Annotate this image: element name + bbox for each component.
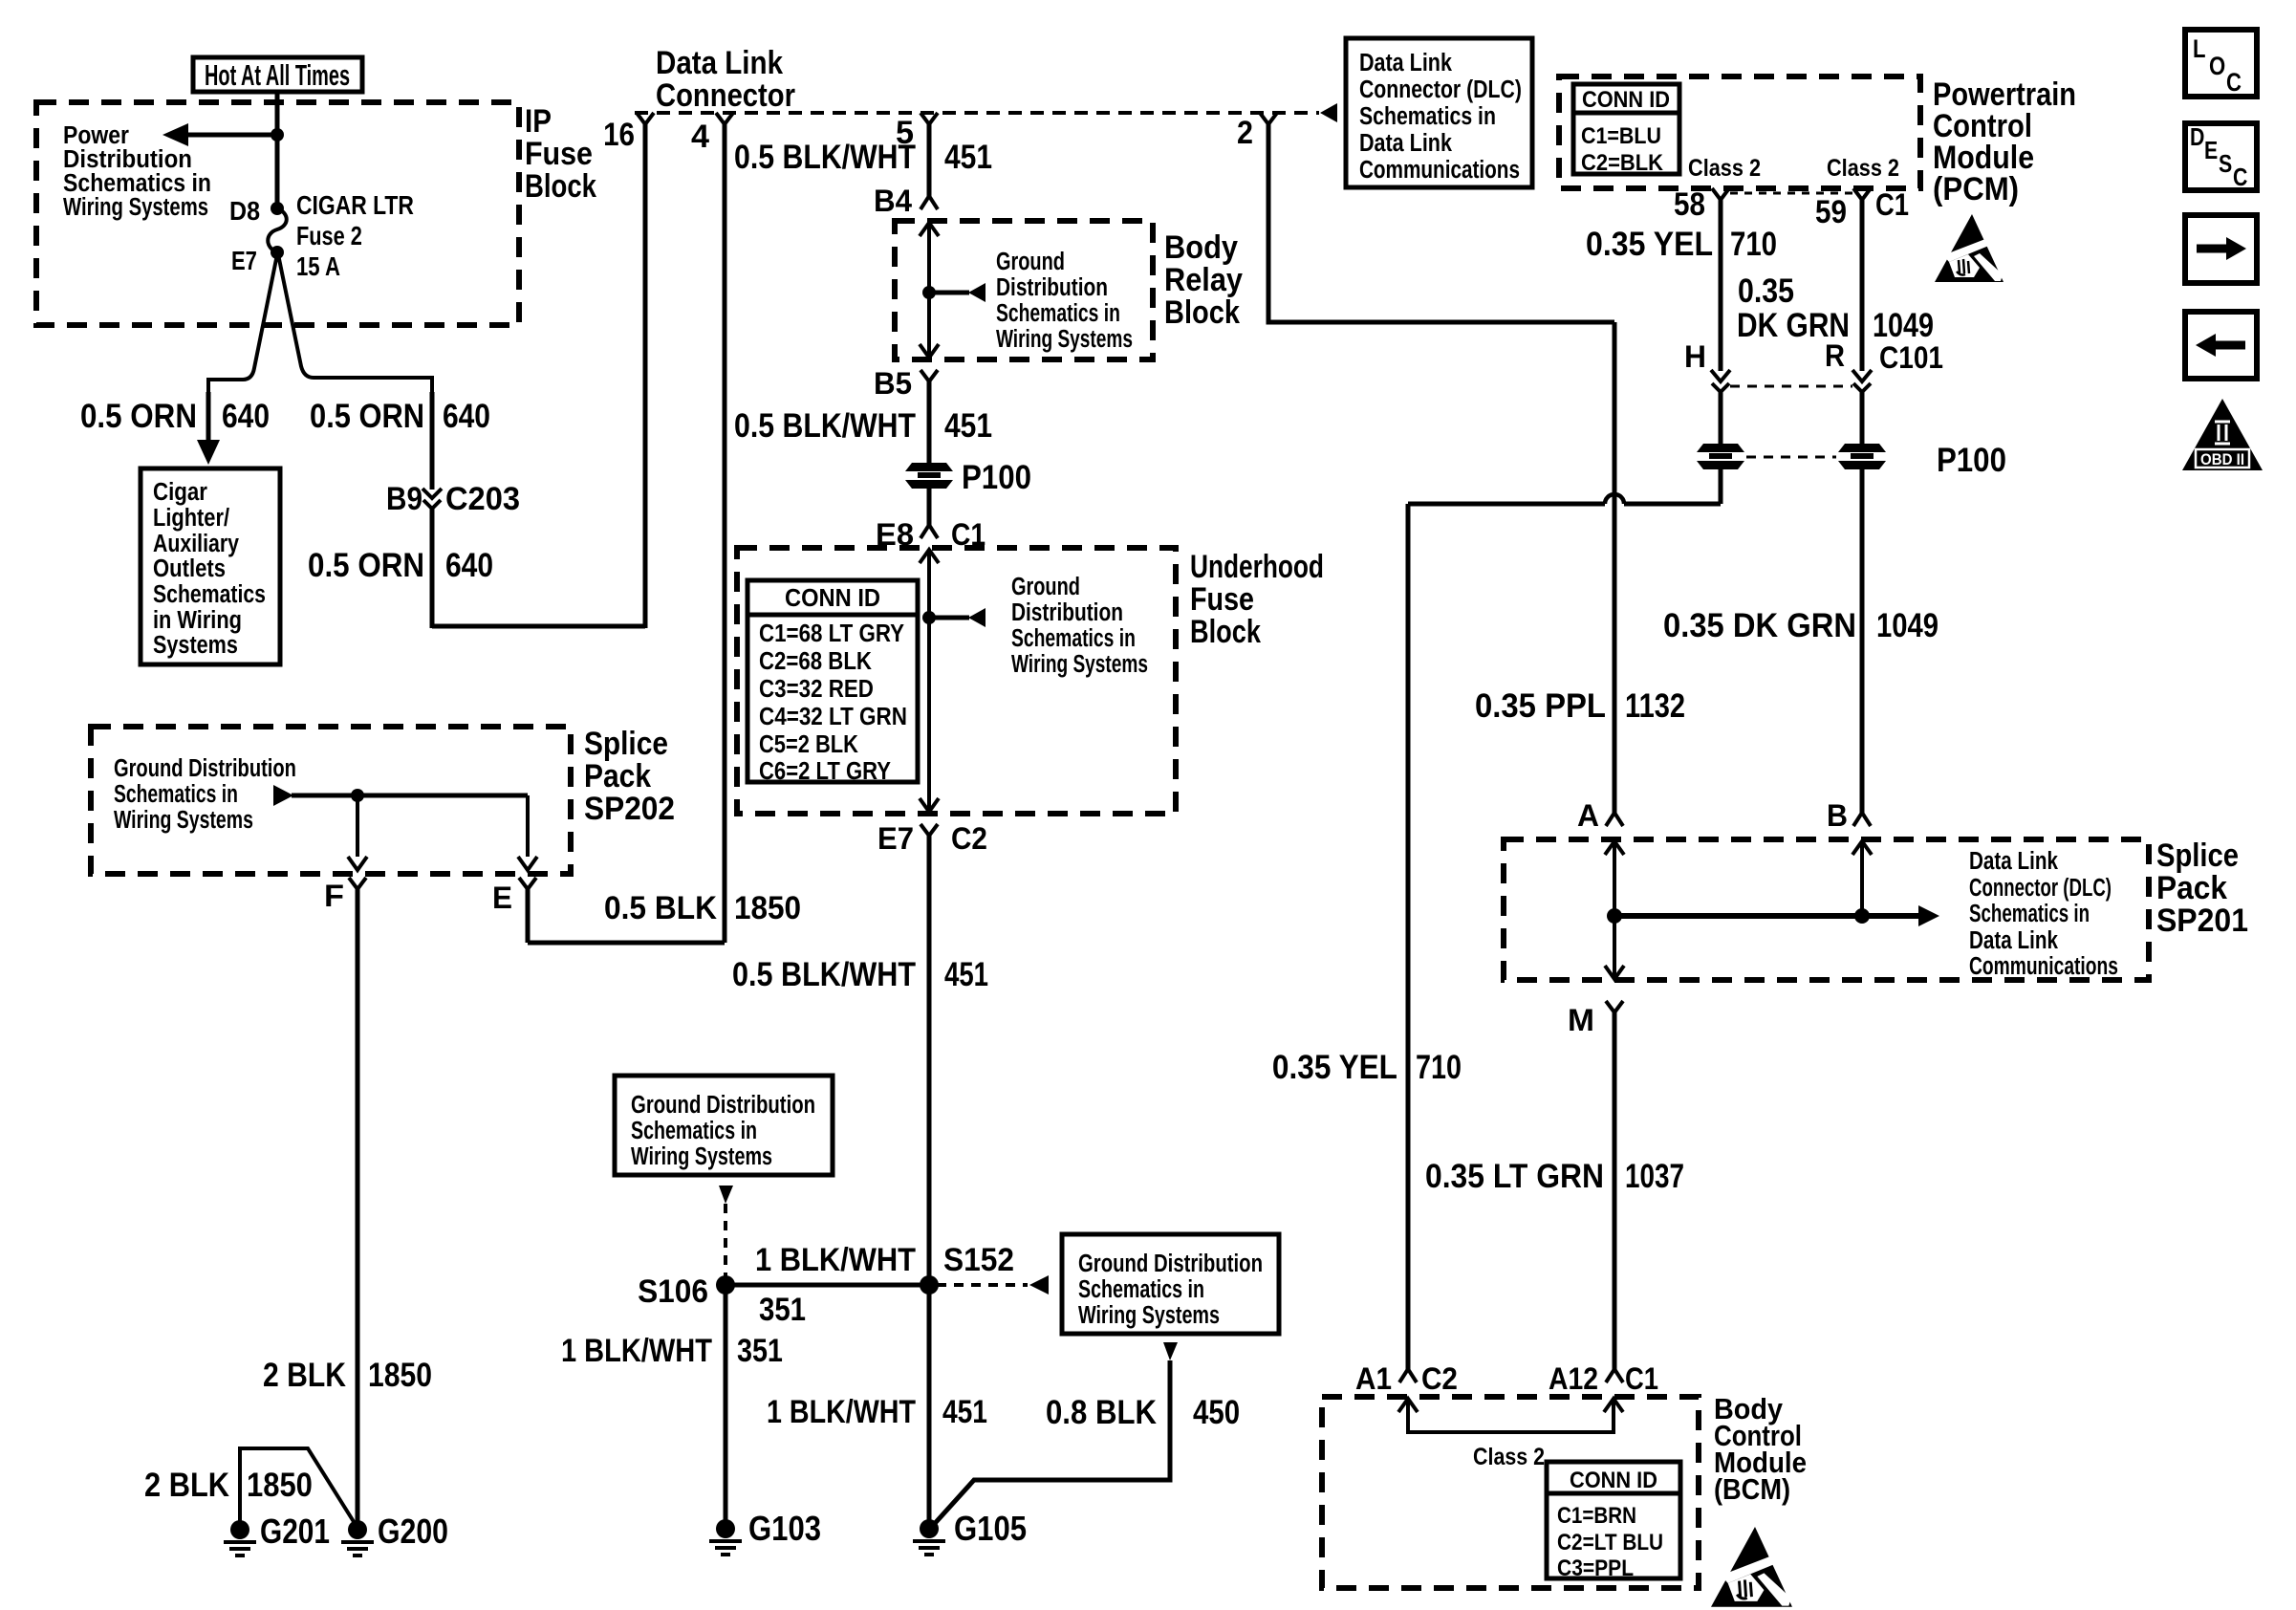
svg-text:P100: P100 (1937, 441, 2006, 478)
svg-text:Communications: Communications (1969, 952, 2118, 981)
connector B5 (921, 370, 938, 381)
svg-text:451: 451 (944, 138, 992, 175)
svg-text:Ground Distribution: Ground Distribution (114, 754, 296, 783)
box Data Link Connector DLC Schematics reference (1346, 38, 1532, 187)
svg-text:16: 16 (603, 116, 635, 152)
svg-text:451: 451 (944, 406, 992, 444)
svg-text:Block: Block (525, 167, 597, 204)
svg-text:2 BLK: 2 BLK (263, 1356, 346, 1393)
wire SP201 A drop (1605, 841, 1624, 855)
ESD symbol PCM (1935, 214, 2004, 282)
svg-text:451: 451 (944, 955, 988, 992)
wire 0.5 ORN 640 right branch (430, 392, 435, 490)
ground G200 (348, 1520, 367, 1539)
svg-text:351: 351 (737, 1332, 783, 1368)
svg-text:640: 640 (443, 397, 490, 434)
net DLC dashed bus line (635, 111, 1319, 115)
table CONN ID PCM (1573, 84, 1679, 174)
svg-text:2: 2 (1237, 114, 1253, 150)
node junction in IP fuse block (271, 128, 284, 141)
svg-text:P100: P100 (962, 458, 1031, 495)
svg-text:Connector (DLC): Connector (DLC) (1969, 874, 2112, 903)
svg-text:Wiring Systems: Wiring Systems (1011, 650, 1148, 679)
svg-text:Fuse 2: Fuse 2 (296, 222, 362, 251)
svg-text:0.35 PPL: 0.35 PPL (1475, 686, 1606, 724)
svg-text:A1: A1 (1355, 1363, 1392, 1397)
svg-text:59: 59 (1815, 193, 1847, 229)
table CONN ID underhood fuse block (747, 580, 918, 782)
svg-text:2 BLK: 2 BLK (144, 1466, 229, 1503)
wire YEL horizontal with hop (1624, 502, 1721, 507)
svg-text:R: R (1825, 340, 1845, 374)
svg-text:C2=68 BLK: C2=68 BLK (759, 647, 872, 676)
wire inside body relay block (920, 223, 939, 236)
svg-text:C: C (2226, 69, 2242, 98)
ESD symbol BCM (1711, 1527, 1792, 1607)
svg-text:C2: C2 (1421, 1363, 1458, 1397)
box Ground Distribution reference (S106) (615, 1076, 833, 1175)
wire SP202 branch E (526, 795, 530, 857)
svg-text:C203: C203 (445, 480, 520, 516)
icon arrow right box (2185, 215, 2257, 283)
svg-text:0.35 LT GRN: 0.35 LT GRN (1425, 1157, 1604, 1194)
svg-text:1037: 1037 (1625, 1157, 1684, 1194)
fuse F2 CIGAR LTR 15A (271, 202, 284, 215)
svg-text:A: A (1577, 800, 1599, 834)
svg-text:A12: A12 (1549, 1363, 1598, 1397)
svg-text:B5: B5 (874, 368, 912, 402)
svg-text:Splice: Splice (584, 725, 668, 761)
svg-text:Splice: Splice (2156, 837, 2239, 873)
arrow into cigar lighter box (197, 440, 220, 465)
wire F down to ground G200 2 BLK 1850 (356, 888, 360, 1527)
svg-text:1049: 1049 (1876, 606, 1939, 643)
svg-text:Outlets: Outlets (153, 555, 226, 583)
wire segment into underhood fuse block (927, 487, 932, 525)
svg-text:E: E (492, 882, 512, 916)
node SP201 junction B (1854, 908, 1870, 924)
svg-text:C1: C1 (1625, 1363, 1658, 1397)
wire DLC pin 5 0.5 BLK/WHT 451 segment 1 (927, 124, 932, 196)
svg-text:Underhood: Underhood (1190, 548, 1324, 584)
svg-text:B4: B4 (874, 185, 913, 219)
wire YEL down to BCM A1 (1406, 504, 1411, 1369)
connector P100 (59 wire) (1838, 444, 1886, 469)
svg-text:E7: E7 (877, 823, 914, 857)
svg-text:Connector: Connector (656, 76, 795, 113)
module box Splice Pack SP202 (dashed) (91, 727, 571, 874)
svg-text:CONN ID: CONN ID (785, 584, 880, 613)
wire pin4 corner to splice pack E (528, 941, 725, 946)
svg-text:(PCM): (PCM) (1933, 170, 2019, 207)
wire fuse output V-split right branch (278, 254, 432, 394)
svg-text:IP: IP (525, 102, 552, 139)
connector P100 pass-through (pin5 wire) (905, 463, 953, 489)
svg-text:Systems: Systems (153, 631, 238, 660)
svg-text:450: 450 (1193, 1393, 1240, 1430)
wire 59 to P100 (1860, 392, 1865, 446)
svg-text:CIGAR LTR: CIGAR LTR (296, 191, 414, 221)
wire E down to corner (526, 888, 531, 943)
node junction underhood fuse block (922, 611, 936, 624)
svg-text:0.35: 0.35 (1738, 272, 1794, 309)
svg-text:D8: D8 (229, 197, 260, 227)
svg-text:Distribution: Distribution (996, 273, 1108, 302)
svg-text:710: 710 (1730, 225, 1777, 262)
connector DLC pin 5 (921, 113, 938, 124)
module box Body Control Module BCM (dashed) (1322, 1397, 1699, 1588)
connector B9 C203 (422, 489, 442, 498)
svg-text:Ground Distribution: Ground Distribution (631, 1091, 815, 1120)
wire 0.5 BLK/WHT 451 segment 3 down to S152 (927, 835, 932, 1285)
arrow down from S152 reference box (1163, 1342, 1178, 1360)
svg-text:0.35 DK GRN: 0.35 DK GRN (1663, 606, 1856, 643)
svg-text:C1: C1 (1875, 189, 1909, 223)
wire 0.35 YEL 710 from PCM 58 (1719, 200, 1723, 371)
svg-text:Hot At All Times: Hot At All Times (205, 59, 350, 93)
connector A (SP201) (1606, 813, 1623, 826)
svg-text:Schematics: Schematics (153, 580, 266, 609)
svg-text:0.35 YEL: 0.35 YEL (1586, 225, 1713, 262)
connector M (1606, 1001, 1623, 1012)
wire arrow to ground distribution ref (underhood) (929, 616, 969, 620)
connector C101 R (1852, 370, 1872, 381)
svg-text:G200: G200 (378, 1512, 448, 1550)
node S106 (716, 1275, 735, 1295)
svg-text:Connector (DLC): Connector (DLC) (1359, 76, 1522, 104)
wire SP202 branch F (356, 795, 359, 857)
module box Body Relay Block (dashed) (895, 221, 1153, 359)
svg-text:C1=BRN: C1=BRN (1557, 1502, 1636, 1528)
wire arrow to Power Distribution reference (187, 133, 277, 138)
svg-text:CONN ID: CONN ID (1570, 1467, 1657, 1492)
connector P100 (58 wire) (1697, 444, 1744, 469)
svg-text:G103: G103 (748, 1509, 821, 1547)
connector PCM pin 58 (1712, 188, 1729, 200)
svg-text:S106: S106 (638, 1273, 708, 1309)
icon DESC box (2185, 123, 2257, 190)
module box Underhood Fuse Block (dashed) (737, 548, 1176, 814)
node S152 (920, 1275, 939, 1295)
svg-text:C2=BLK: C2=BLK (1581, 149, 1663, 175)
wire 0.5 ORN 640 to cigar lighter (206, 392, 211, 441)
ground G105 (920, 1519, 939, 1538)
svg-text:D: D (2190, 123, 2204, 152)
net dashed link between PCM pins (1730, 192, 1852, 195)
net dashed link C101 (1730, 385, 1852, 388)
node SP202 junction (351, 789, 364, 802)
wire dashed S152 to reference (937, 1283, 1028, 1287)
wire 0.8 BLK 450 to G105 (929, 1360, 1170, 1530)
svg-text:Data Link: Data Link (656, 44, 784, 80)
svg-text:451: 451 (942, 1393, 987, 1429)
svg-text:Wiring Systems: Wiring Systems (114, 806, 253, 835)
svg-text:0.5 BLK/WHT: 0.5 BLK/WHT (732, 955, 916, 992)
svg-text:C2=LT BLU: C2=LT BLU (1557, 1529, 1663, 1555)
wire SP202 internal bus with arrow (273, 785, 293, 806)
svg-text:1 BLK/WHT: 1 BLK/WHT (561, 1332, 712, 1368)
svg-text:O: O (2209, 53, 2225, 81)
svg-text:S: S (2219, 150, 2232, 179)
svg-text:Block: Block (1164, 294, 1241, 330)
svg-text:B9: B9 (386, 480, 422, 516)
ground G103 (716, 1519, 735, 1538)
module box Splice Pack SP201 (dashed) (1504, 839, 2149, 980)
svg-text:C1=68 LT GRY: C1=68 LT GRY (759, 620, 904, 648)
svg-text:F: F (324, 881, 344, 914)
connector F (349, 878, 366, 889)
wire 0.5 BLK/WHT 451 segment 2 (927, 381, 932, 465)
label Hot At All Times (193, 57, 362, 92)
wire BCM internal U link (1398, 1399, 1418, 1412)
svg-text:C4=32 LT GRN: C4=32 LT GRN (759, 703, 907, 731)
svg-text:Fuse: Fuse (525, 135, 593, 171)
connector B (SP201) (1853, 813, 1871, 826)
box Ground Distribution reference (S152) (1062, 1234, 1279, 1334)
svg-text:1132: 1132 (1625, 686, 1685, 724)
svg-text:1 BLK/WHT: 1 BLK/WHT (767, 1393, 916, 1429)
svg-text:Pack: Pack (2156, 869, 2228, 905)
svg-text:Class 2: Class 2 (1827, 154, 1899, 181)
svg-text:L: L (2193, 35, 2206, 64)
svg-text:C2: C2 (951, 823, 987, 857)
svg-text:Ground Distribution: Ground Distribution (1078, 1250, 1263, 1278)
svg-text:Schematics in: Schematics in (1359, 102, 1496, 131)
svg-text:Data Link: Data Link (1969, 847, 2059, 876)
connector C101 H (1711, 370, 1730, 381)
svg-text:C5=2 BLK: C5=2 BLK (759, 730, 858, 759)
svg-text:Data Link: Data Link (1969, 926, 2059, 955)
svg-text:Wiring Systems: Wiring Systems (996, 325, 1133, 354)
ground G201 (230, 1520, 249, 1539)
svg-text:DK GRN: DK GRN (1737, 306, 1850, 343)
wire from Hot At All Times into fuse block (275, 92, 280, 208)
svg-text:Fuse: Fuse (1190, 580, 1254, 617)
svg-text:640: 640 (222, 397, 270, 434)
wire 0.35 LT GRN 1037 to BCM A12 (1613, 1012, 1617, 1369)
svg-text:SP202: SP202 (584, 790, 675, 826)
icon LOC box (2185, 30, 2257, 97)
svg-text:0.5 ORN: 0.5 ORN (310, 397, 424, 434)
wire branch to G201 (240, 1448, 357, 1528)
svg-text:E: E (2204, 137, 2218, 165)
wire dashed drop to S106 (724, 1204, 727, 1279)
icon arrow left box (2185, 312, 2257, 379)
node SP201 junction A (1607, 908, 1622, 924)
svg-text:Class 2: Class 2 (1473, 1443, 1545, 1469)
connector E8 C1 (921, 525, 938, 538)
connector PCM pin 59 (1853, 188, 1871, 200)
svg-text:M: M (1568, 1005, 1594, 1038)
svg-text:Pack: Pack (584, 757, 652, 794)
net dashed link P100 pair (1746, 456, 1836, 459)
node junction body relay block (922, 286, 936, 299)
wire 0.35 DK GRN 1049 from PCM 59 (1860, 200, 1865, 371)
svg-text:Ground: Ground (996, 248, 1065, 276)
module box IP Fuse Block (dashed) (36, 102, 519, 325)
wire 58 P100 to corner (1719, 468, 1723, 504)
svg-text:B: B (1827, 800, 1848, 834)
connector DLC pin 2 (1260, 113, 1277, 124)
svg-text:S152: S152 (943, 1241, 1014, 1277)
svg-text:Lighter/: Lighter/ (153, 504, 229, 533)
svg-text:Body: Body (1164, 228, 1239, 265)
table CONN ID BCM (1547, 1462, 1680, 1578)
svg-text:1850: 1850 (247, 1466, 313, 1503)
connector E (519, 878, 536, 889)
svg-text:Wiring Systems: Wiring Systems (63, 193, 208, 222)
svg-text:15 A: 15 A (296, 252, 340, 282)
svg-text:Wiring Systems: Wiring Systems (631, 1142, 772, 1171)
arrow to DLC reference (pin2 side) (1320, 103, 1337, 122)
connector A12 C1 (BCM) (1606, 1369, 1623, 1382)
wire DLC pin 4 0.5 BLK 1850 (723, 124, 727, 943)
svg-text:0.5 ORN: 0.5 ORN (308, 546, 424, 583)
wire arrow to ground distribution ref (body relay block) (929, 291, 969, 295)
svg-text:C101: C101 (1879, 342, 1943, 376)
connector E7 C2 (921, 824, 938, 836)
svg-text:Ground: Ground (1011, 573, 1080, 601)
svg-text:Distribution: Distribution (1011, 598, 1123, 627)
svg-text:C6=2 LT GRY: C6=2 LT GRY (759, 757, 891, 786)
wire DLC pin 2 0.35 PPL 1132 (1268, 124, 1614, 322)
svg-text:Wiring Systems: Wiring Systems (1078, 1301, 1220, 1330)
wire 58 to P100 (1719, 392, 1723, 446)
wire SP201 internal bus (1614, 913, 1918, 919)
connector A1 C2 (BCM) (1399, 1369, 1417, 1382)
svg-text:Class 2: Class 2 (1688, 154, 1761, 181)
svg-text:C: C (2233, 163, 2247, 192)
svg-text:Schematics in: Schematics in (1078, 1275, 1204, 1304)
svg-text:0.35 YEL: 0.35 YEL (1272, 1048, 1397, 1085)
wire 0.5 ORN 640 below C203 (430, 509, 435, 628)
svg-text:0.5 BLK/WHT: 0.5 BLK/WHT (734, 138, 916, 175)
svg-text:Schematics in: Schematics in (996, 299, 1120, 328)
svg-text:Data Link: Data Link (1359, 49, 1453, 77)
svg-text:C3=PPL: C3=PPL (1557, 1555, 1634, 1580)
connector DLC pin 4 (716, 113, 733, 124)
svg-text:(BCM): (BCM) (1714, 1473, 1790, 1507)
wire S106 down to G103 1 BLK/WHT 351 (724, 1285, 728, 1527)
svg-text:CONN ID: CONN ID (1582, 86, 1670, 112)
svg-text:Data Link: Data Link (1359, 129, 1453, 158)
svg-text:Schematics in: Schematics in (114, 780, 238, 809)
svg-text:0.5 BLK: 0.5 BLK (604, 889, 718, 925)
svg-text:58: 58 (1674, 185, 1705, 222)
svg-text:351: 351 (759, 1291, 806, 1327)
connector B4 (921, 196, 938, 209)
svg-text:Cigar: Cigar (153, 478, 207, 507)
svg-text:Schematics in: Schematics in (1969, 900, 2090, 928)
svg-text:0.5 BLK/WHT: 0.5 BLK/WHT (734, 406, 916, 444)
svg-text:SP201: SP201 (2156, 902, 2248, 938)
svg-text:1850: 1850 (734, 889, 801, 925)
svg-text:0.8 BLK: 0.8 BLK (1046, 1393, 1157, 1430)
wire SP201 B drop (1852, 841, 1872, 855)
svg-text:C1=BLU: C1=BLU (1581, 122, 1661, 148)
svg-text:1049: 1049 (1873, 306, 1934, 343)
svg-text:Schematics in: Schematics in (1011, 624, 1136, 653)
svg-text:Schematics in: Schematics in (631, 1117, 757, 1145)
connector DLC pin 16 (637, 113, 654, 124)
svg-text:OBD II: OBD II (2200, 451, 2244, 469)
svg-text:0.5 ORN: 0.5 ORN (80, 397, 197, 434)
wire corner to DLC pin 16 riser (432, 624, 645, 629)
svg-text:1850: 1850 (368, 1356, 432, 1393)
arrow down from S106 reference box (719, 1186, 733, 1204)
svg-text:G201: G201 (260, 1512, 330, 1550)
module box Powertrain Control Module PCM (dashed) (1559, 76, 1920, 188)
wire fuse output V-split left branch (208, 254, 277, 394)
svg-text:Block: Block (1190, 613, 1262, 649)
svg-text:640: 640 (445, 546, 493, 583)
svg-text:C3=32 RED: C3=32 RED (759, 675, 874, 704)
svg-text:E7: E7 (231, 247, 257, 276)
svg-text:Communications: Communications (1359, 156, 1520, 185)
wire S106 to S152 1 BLK/WHT 351 (726, 1283, 929, 1288)
wire DK GRN down to SP201 B (1860, 468, 1865, 813)
svg-text:1 BLK/WHT: 1 BLK/WHT (755, 1241, 916, 1277)
wire inside underhood fuse block (920, 550, 939, 563)
wire S152 down to G105 1 BLK/WHT 451 (927, 1285, 932, 1527)
svg-text:4: 4 (691, 118, 710, 154)
label box Cigar Lighter/Auxiliary Outlets Schematics in Wiring Systems (141, 468, 280, 664)
icon OBD II triangle (2182, 399, 2263, 470)
svg-text:Relay: Relay (1164, 261, 1244, 297)
svg-text:H: H (1684, 341, 1706, 375)
svg-text:710: 710 (1416, 1048, 1462, 1085)
svg-text:G105: G105 (954, 1509, 1027, 1547)
